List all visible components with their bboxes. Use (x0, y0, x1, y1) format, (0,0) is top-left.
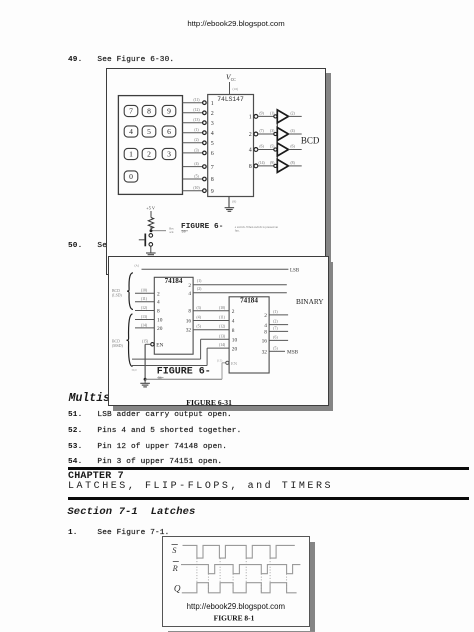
svg-text:BCD: BCD (301, 135, 320, 145)
svg-text:(A): (A) (134, 263, 138, 267)
svg-text:4: 4 (249, 147, 252, 153)
svg-text:(5): (5) (196, 324, 201, 328)
svg-text:(11): (11) (219, 315, 226, 319)
svg-text:(9): (9) (270, 161, 275, 165)
svg-text:(3): (3) (270, 129, 275, 133)
svg-text:8: 8 (231, 327, 234, 333)
svg-text:7: 7 (211, 164, 214, 170)
svg-text:4: 4 (188, 291, 191, 297)
svg-text:(5): (5) (194, 174, 199, 178)
svg-text:(1): (1) (270, 111, 275, 115)
svg-text:(15): (15) (142, 339, 149, 343)
svg-text:(4): (4) (196, 315, 201, 319)
svg-text:2: 2 (147, 149, 151, 158)
svg-text:(3): (3) (196, 305, 201, 309)
svg-text:R: R (172, 564, 178, 573)
svg-text:LSB: LSB (290, 268, 300, 273)
svg-text:(7): (7) (273, 326, 278, 330)
svg-text:(6): (6) (273, 335, 278, 339)
svg-text:20: 20 (231, 346, 237, 352)
svg-text:4: 4 (264, 322, 267, 328)
svg-text:(11): (11) (140, 297, 147, 301)
svg-text:Q: Q (174, 584, 181, 594)
svg-text:(10): (10) (193, 186, 200, 190)
svg-text:74LS147: 74LS147 (217, 95, 244, 102)
svg-text:(12): (12) (140, 305, 147, 309)
svg-text:(14): (14) (259, 161, 266, 165)
svg-text:FIGURE 6-31: FIGURE 6-31 (186, 397, 232, 406)
svg-text:(6): (6) (290, 144, 295, 148)
svg-text:(8): (8) (232, 199, 236, 203)
svg-text:6: 6 (211, 151, 214, 157)
svg-text:8: 8 (249, 164, 252, 170)
svg-text:FIGURE 6-: FIGURE 6- (181, 222, 223, 230)
svg-text:(1): (1) (197, 279, 202, 283)
svg-text:3: 3 (211, 120, 214, 126)
svg-text:(11): (11) (193, 98, 200, 102)
svg-text:16: 16 (261, 338, 267, 344)
svg-text:10: 10 (157, 317, 163, 323)
svg-text:(6): (6) (259, 144, 264, 148)
svg-text:4: 4 (157, 299, 160, 305)
svg-text:(13): (13) (193, 118, 200, 122)
svg-text:fun.: fun. (235, 228, 240, 232)
svg-text:16: 16 (185, 318, 191, 324)
svg-text:1: 1 (129, 149, 133, 158)
svg-text:a switch. When switch is press: a switch. When switch is pressed an (235, 225, 279, 229)
svg-text:(1): (1) (194, 128, 199, 132)
svg-text:74184: 74184 (164, 277, 182, 285)
svg-text:S: S (173, 546, 178, 555)
svg-text:CC: CC (231, 78, 236, 82)
svg-text:6: 6 (167, 127, 171, 136)
svg-text:5: 5 (211, 141, 214, 147)
svg-text:(16): (16) (233, 87, 239, 91)
svg-text:32: 32 (185, 327, 191, 333)
svg-text:8: 8 (147, 106, 151, 115)
svg-text:(5): (5) (270, 144, 275, 148)
svg-text:5: 5 (147, 127, 151, 136)
svg-text:(MSD): (MSD) (112, 343, 123, 347)
svg-text:(4): (4) (194, 162, 199, 166)
svg-text:1: 1 (211, 100, 214, 106)
svg-text:(LSD): (LSD) (112, 293, 122, 297)
svg-text:(14): (14) (140, 323, 147, 327)
svg-text:(15): (15) (217, 358, 222, 362)
svg-text:(2): (2) (197, 287, 202, 291)
svg-text:(2): (2) (290, 111, 295, 115)
svg-text:(8): (8) (290, 161, 295, 165)
svg-text:8: 8 (188, 308, 191, 314)
svg-text:4: 4 (231, 318, 234, 324)
svg-text:20: 20 (157, 325, 163, 331)
svg-text:9: 9 (211, 188, 214, 194)
svg-text:8: 8 (264, 329, 267, 335)
svg-text:2: 2 (211, 111, 214, 117)
svg-text:2: 2 (157, 291, 160, 297)
svg-text:ack: ack (169, 230, 174, 234)
svg-text:3: 3 (167, 149, 171, 158)
svg-text:(12): (12) (193, 108, 200, 112)
svg-text:MSB: MSB (287, 349, 299, 355)
svg-text:9: 9 (167, 106, 171, 115)
svg-text:(13): (13) (219, 334, 226, 338)
svg-text:8: 8 (211, 177, 214, 183)
svg-text:8: 8 (157, 308, 160, 314)
svg-text:(9): (9) (259, 111, 264, 115)
svg-text:1: 1 (249, 114, 252, 120)
svg-text:BCD: BCD (112, 339, 120, 343)
svg-text:(2): (2) (273, 319, 278, 323)
svg-text:4: 4 (129, 127, 133, 136)
svg-text:(2): (2) (194, 138, 199, 142)
svg-text:(1): (1) (273, 309, 278, 313)
svg-text:(12): (12) (219, 324, 226, 328)
svg-text:+5 V: +5 V (146, 205, 156, 210)
svg-text:2: 2 (264, 313, 267, 319)
svg-text:30,0: 30,0 (131, 368, 137, 373)
svg-text:(10): (10) (219, 305, 226, 309)
svg-text:7: 7 (129, 106, 133, 115)
svg-text:(7): (7) (259, 129, 264, 133)
svg-text:(5): (5) (273, 346, 278, 350)
svg-text:EN: EN (156, 342, 163, 348)
svg-text:(14): (14) (219, 343, 226, 347)
svg-text:FIGURE 6-: FIGURE 6- (156, 366, 210, 377)
svg-text:(13): (13) (140, 314, 147, 318)
svg-text:2: 2 (249, 132, 252, 138)
svg-text:BCD: BCD (112, 289, 120, 293)
svg-text:FIGURE 8-1: FIGURE 8-1 (214, 614, 255, 623)
svg-text:(3): (3) (194, 148, 199, 152)
svg-text:0: 0 (129, 172, 133, 181)
svg-text:2: 2 (188, 282, 191, 288)
svg-text:32: 32 (261, 349, 267, 355)
svg-text:EN: EN (231, 361, 238, 366)
svg-text:2: 2 (231, 309, 234, 315)
svg-text:(4): (4) (290, 129, 295, 133)
svg-text:10: 10 (231, 337, 237, 343)
svg-text:74184: 74184 (240, 296, 258, 304)
svg-text:(10): (10) (140, 288, 147, 292)
svg-text:BINARY: BINARY (296, 297, 324, 306)
svg-text:4: 4 (211, 130, 214, 136)
svg-text:http://ebook29.blogspot.com: http://ebook29.blogspot.com (187, 602, 285, 611)
